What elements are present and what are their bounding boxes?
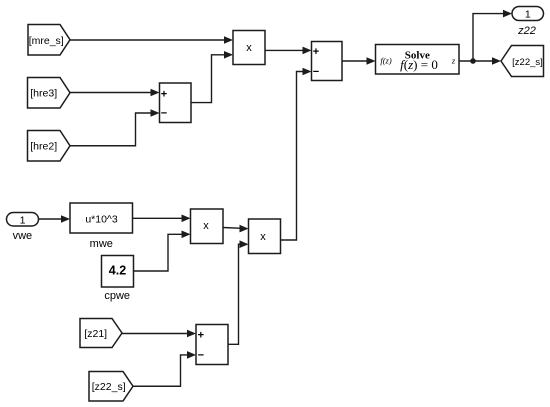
- svg-text:−: −: [198, 349, 204, 361]
- svg-text:f(z): f(z): [380, 56, 392, 66]
- svg-text:z: z: [451, 56, 456, 66]
- svg-text:[hre3]: [hre3]: [30, 88, 57, 100]
- svg-text:[z22_s]: [z22_s]: [92, 381, 126, 393]
- svg-text:4.2: 4.2: [109, 264, 126, 278]
- svg-text:+: +: [313, 46, 319, 58]
- svg-text:x: x: [260, 231, 266, 243]
- svg-text:[mre_s]: [mre_s]: [29, 35, 64, 47]
- svg-text:−: −: [161, 108, 167, 120]
- svg-text:mwe: mwe: [90, 238, 113, 250]
- svg-text:f(z) = 0: f(z) = 0: [400, 57, 438, 72]
- svg-text:x: x: [203, 220, 209, 232]
- svg-text:1: 1: [20, 214, 26, 226]
- svg-text:+: +: [161, 88, 167, 100]
- svg-text:cpwe: cpwe: [104, 290, 130, 302]
- svg-text:+: +: [198, 329, 204, 341]
- svg-text:x: x: [246, 42, 252, 54]
- svg-text:[z21]: [z21]: [84, 328, 107, 340]
- svg-text:[z22_s]: [z22_s]: [512, 57, 543, 68]
- svg-text:−: −: [313, 66, 319, 78]
- svg-text:u*10^3: u*10^3: [85, 213, 118, 225]
- svg-text:z22: z22: [517, 25, 536, 37]
- svg-text:[hre2]: [hre2]: [30, 141, 57, 153]
- svg-text:vwe: vwe: [13, 230, 33, 242]
- svg-text:1: 1: [525, 8, 531, 20]
